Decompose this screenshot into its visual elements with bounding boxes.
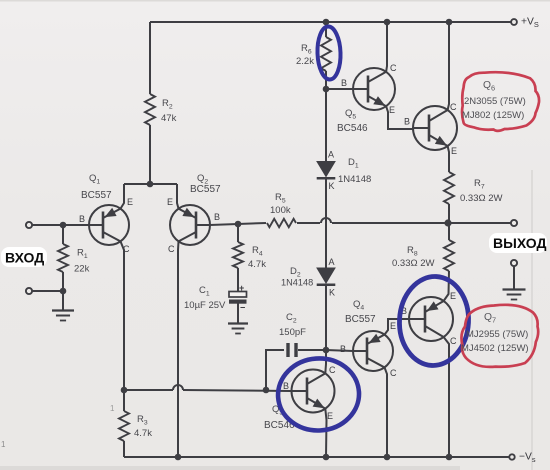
wire output node to terminal (448, 222, 511, 224)
svg-text:1: 1 (1, 440, 6, 449)
svg-text:1: 1 (110, 404, 115, 413)
svg-text:100k: 100k (270, 205, 291, 216)
wire Q5 emitter to Q6 base (386, 106, 413, 129)
-Vs terminal (509, 454, 514, 459)
wire R1 bottom lead (62, 272, 64, 291)
ground output (503, 288, 526, 290)
wire Q6 emitter to R7 (448, 146, 449, 172)
wire Q6 collector to +Vs rail (448, 22, 449, 110)
capacitor C1 10uF electrolytic (229, 292, 247, 298)
capacitor C2 150pF (286, 343, 289, 357)
svg-text:E: E (127, 197, 133, 207)
wire R1 top lead (62, 225, 64, 244)
wire R6 bottom to Q5 base node (325, 71, 327, 90)
svg-text:47k: 47k (161, 113, 177, 124)
svg-text:C: C (450, 102, 457, 112)
wire feedback R5 to output node, hop over diode chain (297, 222, 320, 224)
svg-text:K: K (328, 181, 334, 191)
svg-text:B: B (79, 214, 85, 224)
junction output node R7/R8 (444, 219, 451, 226)
resistor R4 4.7k (233, 242, 243, 268)
resistor R5 100k (267, 219, 296, 227)
junction C2 loop/Q3 base wire (263, 387, 270, 394)
svg-text:C: C (450, 336, 457, 346)
svg-text:C: C (329, 365, 336, 375)
svg-text:ВХОД: ВХОД (5, 250, 44, 266)
diode D1 1N4148 (317, 162, 335, 177)
diode D2 1N4148 (317, 268, 335, 283)
resistor R8 0.33ohm 2W (444, 240, 454, 271)
wire Q3 collector to bias node (324, 350, 327, 373)
resistor R6 2.2k (321, 37, 331, 71)
svg-text:BC557: BC557 (81, 190, 112, 201)
annotation blue circle around Q3 (276, 356, 362, 433)
wire C2 right plate to Q4 base node (298, 349, 326, 351)
svg-text:E: E (167, 197, 173, 207)
junction D2/C2/Q4 base/Q3 collector (323, 347, 330, 354)
node output label VYHOD (489, 233, 547, 253)
resistor R1 22k (58, 244, 68, 272)
annotation red outline around Q6 type (462, 72, 539, 131)
junction R2/emitter rail (147, 181, 154, 188)
transistor Q2 BC557 PNP (170, 205, 210, 245)
junction +Vs/R6 (323, 19, 330, 26)
svg-text:MJ4502 (125W): MJ4502 (125W) (461, 343, 529, 354)
wire Q4 collector drop (385, 367, 388, 457)
wire input to Q1 base (29, 224, 89, 226)
svg-text:−: − (240, 303, 245, 313)
transistor Q7 MJ2955 PNP (409, 297, 453, 341)
wire D2 cathode to Q4 base node (325, 286, 327, 350)
ground C1 (228, 322, 248, 324)
svg-text:C: C (390, 368, 397, 378)
svg-text:A: A (328, 150, 334, 160)
wire output ground terminal lead (513, 266, 515, 289)
wire C2 left plate loop down (266, 350, 284, 390)
svg-text:A: A (328, 257, 334, 267)
annotation blue ellipse around R6 (317, 26, 342, 80)
wire Q4 base lead (326, 350, 353, 351)
svg-text:BC557: BC557 (345, 314, 376, 325)
output terminal (511, 220, 517, 226)
junction -Vs/Q7 collector (446, 454, 453, 461)
junction input/R1 bottom (60, 288, 67, 295)
junction +Vs/Q5 collector (384, 19, 391, 26)
svg-text:B: B (340, 344, 346, 354)
junction -Vs/Q3 emitter (323, 454, 330, 461)
svg-text:4.7k: 4.7k (134, 428, 152, 439)
svg-text:2N3055 (75W): 2N3055 (75W) (464, 96, 526, 107)
wire R2 top feed from +Vs rail (149, 22, 151, 94)
svg-text:E: E (451, 146, 457, 156)
svg-text:BC546: BC546 (337, 123, 368, 134)
wire R4 top lead (237, 224, 239, 242)
svg-text:ВЫХОД: ВЫХОД (493, 235, 546, 251)
svg-text:150pF: 150pF (279, 327, 306, 338)
node input label VHOD (1, 247, 47, 267)
junction +Vs/Q6 collector (446, 19, 453, 26)
wire output node to R8 (448, 223, 450, 240)
+Vs terminal (511, 19, 517, 25)
junction input/R1 top (60, 222, 67, 229)
wire Q1 collector drop (121, 241, 125, 390)
svg-text:B: B (283, 381, 289, 391)
svg-text:+: + (239, 283, 244, 293)
svg-text:B: B (341, 78, 347, 88)
svg-text:B: B (214, 212, 220, 222)
svg-text:22k: 22k (74, 264, 90, 275)
svg-text:K: K (329, 288, 335, 298)
wire Q2 collector drop (177, 241, 180, 457)
junction -Vs/Q2 collector (175, 454, 182, 461)
svg-text:C: C (123, 244, 130, 254)
wire emitter rail Q1-Q2 (124, 183, 177, 185)
resistor R7 0.33ohm 2W (444, 172, 454, 204)
input terminal lower (26, 288, 32, 294)
wire Q5 base lead (326, 88, 353, 90)
svg-text:0.33Ω 2W: 0.33Ω 2W (460, 193, 503, 204)
svg-text:MJ2955 (75W): MJ2955 (75W) (466, 329, 528, 340)
wire Q2 base to R5 node (210, 223, 266, 225)
junction Q2 base/R4/R5 (235, 221, 242, 228)
wire Q1 collector to Q3 base, hop over Q2 collector (124, 389, 173, 391)
junction -Vs/Q4 collector (384, 454, 391, 461)
svg-text:4.7k: 4.7k (248, 259, 266, 270)
transistor Q3 BC546 NPN (292, 370, 335, 413)
transistor Q5 BC546 NPN (353, 68, 395, 110)
annotation blue circle around Q7 (397, 275, 471, 367)
wire D1 cathode to D2 anode (325, 178, 327, 269)
wire Q7 base from Q4 emitter (385, 319, 410, 335)
svg-text:E: E (450, 291, 456, 301)
output ground terminal (511, 260, 517, 266)
wire Q3 emitter to -Vs rail (325, 409, 326, 457)
transistor Q6 2N3055 NPN (413, 106, 457, 150)
junction Q1 collector/R3/Q3 base wire (121, 387, 128, 394)
wire R2 bottom to tail junction (149, 125, 151, 184)
svg-text:MJ802 (125W): MJ802 (125W) (462, 110, 524, 121)
input terminal upper (26, 222, 32, 228)
wire Q1 emitter riser (121, 184, 125, 209)
ground input (52, 309, 74, 311)
wire +Vs top rail (150, 21, 511, 23)
svg-text:BC557: BC557 (190, 184, 221, 195)
wire Q7 collector drop (444, 337, 449, 457)
resistor R3 4.7k (119, 411, 129, 441)
svg-text:C: C (390, 63, 397, 73)
annotation red outline around Q7 type (461, 305, 538, 367)
wire Q5 collector to +Vs rail (385, 22, 388, 72)
transistor Q4 BC557 PNP (353, 331, 393, 371)
junction R6/Q5 base/D1 (323, 86, 330, 93)
wire R3 top lead (123, 390, 125, 411)
resistor R2 47k (145, 94, 155, 125)
svg-text:2.2k: 2.2k (296, 56, 314, 67)
svg-text:0.33Ω 2W: 0.33Ω 2W (392, 258, 435, 269)
svg-text:1N4148: 1N4148 (338, 174, 371, 185)
svg-text:E: E (327, 411, 333, 421)
svg-text:B: B (404, 117, 410, 127)
wire R7 to output node (448, 204, 450, 223)
wire R8 to Q7 emitter (444, 271, 449, 301)
svg-text:10µF 25V: 10µF 25V (184, 300, 226, 311)
svg-text:C: C (168, 244, 175, 254)
wire Q2 emitter riser (177, 184, 179, 209)
wire C1 to ground (237, 303, 239, 323)
svg-text:1N4148: 1N4148 (281, 278, 313, 288)
wire R4 bottom to C1 (237, 268, 239, 292)
wire -Vs bottom rail (124, 456, 509, 458)
wire R3 bottom to -Vs rail (123, 441, 125, 457)
wire R6 top lead (325, 22, 327, 37)
svg-text:E: E (389, 105, 395, 115)
svg-text:E: E (390, 321, 396, 331)
wire bias chain node to D1 anode (325, 90, 327, 161)
transistor Q1 BC557 PNP (89, 205, 129, 245)
wire input lower to ground (29, 291, 63, 311)
